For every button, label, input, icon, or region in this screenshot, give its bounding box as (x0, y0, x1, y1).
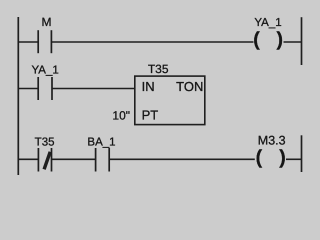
coil M3.3 (256, 147, 286, 169)
svg-text:M3.3: M3.3 (258, 134, 286, 148)
wire rung1 contact M to coil YA_1 (51, 41, 253, 43)
contact T35 (NC) (38, 148, 51, 172)
svg-text:T35: T35 (148, 62, 169, 76)
right power rail segment rung 1 (301, 17, 303, 65)
wire rung3 BA_1 to coil M3.3 (109, 158, 255, 160)
svg-text:T35: T35 (35, 136, 55, 148)
svg-text:YA_1: YA_1 (31, 64, 58, 76)
contact YA_1 (NO) (38, 77, 52, 100)
svg-text:M: M (42, 15, 52, 29)
wire rung1 coil to right rail (284, 41, 302, 43)
coil YA_1 (253, 29, 283, 51)
wire rung2 contact YA_1 to timer IN (52, 88, 135, 90)
wire rung3 rail to contact T35 (18, 158, 38, 160)
right power rail segment rung 3 (301, 135, 303, 172)
wire rung3 coil to right rail (286, 158, 302, 160)
svg-text:10": 10" (112, 109, 130, 123)
wire rung2 rail to contact YA_1 (18, 88, 38, 90)
timer U T35 box (TON) (135, 76, 205, 125)
left power rail (17, 17, 19, 175)
svg-text:IN: IN (142, 79, 155, 94)
contact M (NO) (38, 30, 51, 53)
svg-text:(: ( (256, 147, 263, 169)
svg-text:): ) (277, 29, 284, 51)
svg-text:(: ( (253, 29, 260, 51)
svg-text:YA_1: YA_1 (254, 17, 281, 29)
svg-text:PT: PT (142, 108, 159, 123)
svg-text:BA_1: BA_1 (87, 136, 115, 148)
svg-text:TON: TON (176, 79, 203, 94)
wire rung3 T35 to BA_1 (52, 158, 96, 160)
svg-text:): ) (279, 147, 286, 169)
wire rung1 rail to contact M (18, 41, 38, 43)
contact BA_1 (NO) (96, 148, 110, 172)
